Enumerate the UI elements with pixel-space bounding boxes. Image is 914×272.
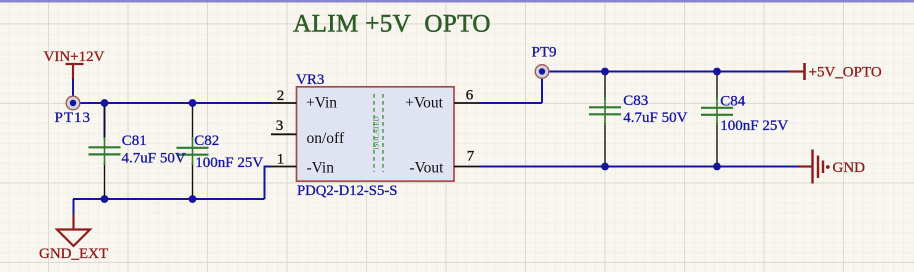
svg-text:GND_EXT: GND_EXT — [39, 246, 108, 262]
svg-text:ALIM +5V OPTO: ALIM +5V OPTO — [293, 11, 491, 38]
svg-text:3: 3 — [276, 118, 284, 134]
svg-text:4.7uF 50V: 4.7uF 50V — [122, 150, 186, 166]
svg-text:4.7uF 50V: 4.7uF 50V — [623, 110, 687, 126]
svg-text:on/off: on/off — [307, 130, 345, 147]
svg-text:PT13: PT13 — [55, 110, 92, 126]
svg-text:C84: C84 — [720, 94, 746, 110]
svg-text:100nF 25V: 100nF 25V — [195, 155, 263, 171]
svg-text:C82: C82 — [194, 133, 219, 149]
svg-text:PDQ2-D12-S5-S: PDQ2-D12-S5-S — [297, 183, 397, 199]
svg-text:+5V_OPTO: +5V_OPTO — [809, 65, 882, 81]
svg-text:1: 1 — [277, 151, 285, 167]
svg-text:7: 7 — [467, 149, 475, 165]
svg-text:VIN+12V: VIN+12V — [44, 49, 105, 65]
svg-text:2: 2 — [277, 88, 285, 104]
svg-text:VR3: VR3 — [296, 72, 324, 88]
svg-text:ISOLATED: ISOLATED — [373, 116, 381, 149]
svg-text:GND: GND — [833, 160, 866, 176]
svg-text:6: 6 — [466, 88, 474, 104]
svg-text:C83: C83 — [623, 93, 648, 109]
svg-text:100nF 25V: 100nF 25V — [720, 118, 788, 134]
svg-text:-Vin: -Vin — [307, 160, 335, 177]
svg-text:C81: C81 — [122, 133, 147, 149]
svg-text:PT9: PT9 — [532, 45, 557, 61]
svg-text:+Vin: +Vin — [306, 95, 337, 112]
svg-text:+Vout: +Vout — [405, 95, 443, 112]
svg-text:-Vout: -Vout — [409, 160, 444, 177]
